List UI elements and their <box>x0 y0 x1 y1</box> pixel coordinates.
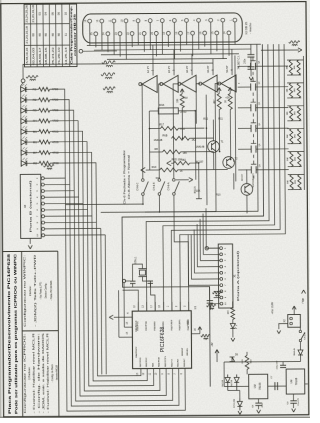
wire to LED common rail <box>23 64 107 79</box>
resistor pair R23b 18K <box>297 129 300 144</box>
svg-text:RB0/INT: RB0/INT <box>182 347 184 356</box>
svg-text:80: 80 <box>51 33 55 37</box>
svg-text:80: 80 <box>31 33 35 37</box>
svg-text:CH-6-C: CH-6-C <box>136 182 139 190</box>
svg-text:Device Config:: Device Config: <box>45 283 48 299</box>
transistor T2 BC337 <box>223 157 235 169</box>
svg-text:CH-LIG: CH-LIG <box>304 332 306 340</box>
Porta B pin 5 <box>41 202 44 205</box>
svg-text:CH-6-A: CH-6-A <box>167 182 170 190</box>
Porta B pin 3 <box>41 189 44 192</box>
svg-text:78L05: 78L05 <box>258 382 262 390</box>
svg-text:80: 80 <box>44 33 48 37</box>
pullup resistor vertical 4K7 <box>217 88 221 91</box>
svg-text:10K: 10K <box>177 98 179 103</box>
svg-text:Porta B (opcional): Porta B (opcional) <box>29 180 32 232</box>
top pin 1 wire <box>123 290 139 311</box>
svg-text:1A 1Y: 1A 1Y <box>146 66 150 73</box>
horizontal bus under DB-25 <box>87 44 261 45</box>
capacitor C8 <box>255 402 261 404</box>
svg-text:- Config. de Hardware:: - Config. de Hardware: <box>37 332 41 413</box>
ground stub left of X2 <box>279 324 288 330</box>
regulator U2 LM78L05 <box>249 374 268 399</box>
svg-text:R10: R10 <box>216 194 221 197</box>
LED D7 <box>21 150 26 156</box>
svg-text:220u: 220u <box>262 403 264 407</box>
svg-text:R11: R11 <box>218 118 223 121</box>
svg-text:RB7/PGD: RB7/PGD <box>140 357 142 367</box>
transistor Q2 BS170 <box>238 86 251 88</box>
ground arrow below Porta B <box>29 238 31 243</box>
power input connector X2 <box>288 314 301 327</box>
svg-text:R12: R12 <box>203 118 208 121</box>
bus wire net D7 <box>50 152 147 381</box>
svg-text:10K: 10K <box>196 190 201 193</box>
resistor pair R25b 18K <box>298 174 301 189</box>
buffer gate U1a 74LS07 <box>142 75 157 92</box>
resistor pair R23a 1K8 <box>290 129 293 144</box>
title text <box>7 253 19 414</box>
svg-text:+Vcc 13,8V: +Vcc 13,8V <box>271 302 274 315</box>
svg-text:BC337: BC337 <box>196 161 204 164</box>
Porta B pin 9 <box>42 227 45 230</box>
svg-text:RB1/RX: RB1/RX <box>178 358 180 366</box>
capacitor C9 <box>290 400 296 402</box>
Porta A pin 5 <box>220 271 223 274</box>
svg-text:+5V: +5V <box>211 342 214 347</box>
svg-text:3V3-0,5W: 3V3-0,5W <box>234 399 236 408</box>
PIC top pin 3 <box>188 302 190 311</box>
svg-text:Ch-6 Fechada = Programador: Ch-6 Fechada = Programador <box>122 150 126 204</box>
buffer gate U1b 74LS07 <box>163 75 178 92</box>
transistor T3 <box>241 184 253 196</box>
connector X2 DB-25 macho <box>83 13 243 43</box>
Porta A pin10 +5V <box>211 304 220 310</box>
svg-text:- JDM(2) Tells TxD+-PWR: - JDM(2) Tells TxD+-PWR <box>34 254 38 327</box>
wires from DB-25 pins down to bus <box>89 23 91 45</box>
svg-text:RB6/PGC: RB6/PGC <box>137 321 139 331</box>
transistor T1 connections <box>213 152 215 169</box>
diode D9 <box>230 357 235 362</box>
DB-25 top pin row (13 pins) <box>88 19 92 23</box>
svg-text:RB4/PGM: RB4/PGM <box>159 357 161 367</box>
PSU top rail <box>224 360 300 363</box>
connector X1 Porta A (opcional) <box>218 244 233 308</box>
bus wire net D4 <box>50 120 166 396</box>
svg-text:1N4148: 1N4148 <box>154 139 163 142</box>
svg-text:100n: 100n <box>244 58 246 64</box>
svg-text:78L08: 78L08 <box>294 377 298 385</box>
switch CH-6-C net to bus <box>145 211 216 213</box>
+Vpp arrow at X2 <box>292 306 296 309</box>
handwritten +5V note <box>26 76 38 81</box>
svg-text:682: 682 <box>182 159 187 162</box>
svg-text:18K: 18K <box>287 157 289 161</box>
PIC top pin 1 <box>171 302 173 311</box>
Porta B pin 4 <box>41 196 44 199</box>
svg-text:11: 11 <box>64 33 68 36</box>
svg-text:3A 3Y: 3A 3Y <box>185 65 189 72</box>
junction dots <box>195 110 197 112</box>
resistor R16 2700 (box style) <box>158 108 178 114</box>
title block <box>22 251 23 416</box>
svg-text:100n-63V: 100n-63V <box>277 360 279 369</box>
switch CH-6-A <box>172 179 175 182</box>
transistor Q5 BS170 <box>238 148 251 150</box>
svg-text:- Na Porta (LPT): - Na Porta (LPT) <box>39 282 42 300</box>
svg-text:- Config. de Hard-: - Config. de Hard- <box>51 364 54 383</box>
resistor pair R20b 18K <box>297 60 300 75</box>
svg-text:+5V: +5V <box>183 97 188 100</box>
bus wire net 1 <box>145 44 270 311</box>
rail to left bus <box>100 44 258 212</box>
Porta A pin 8 <box>220 290 223 293</box>
svg-text:- Porta PIC16F628: - Porta PIC16F628 <box>50 280 53 301</box>
svg-text:06: 06 <box>57 12 61 16</box>
svg-text:5A 5Y: 5A 5Y <box>225 65 229 72</box>
Porta A pin 6 <box>220 278 223 281</box>
wire wrap net <box>121 44 265 387</box>
PIC top pin 13 <box>146 302 148 311</box>
svg-text:- Fusivel: Habilitar nivel MCL: - Fusivel: Habilitar nivel MCLR <box>33 332 37 413</box>
crystal wires <box>133 264 143 281</box>
resistor pair R20a 1K8 <box>289 60 292 75</box>
transistor Q3 BS170 <box>238 107 251 109</box>
base bus for transistor column <box>234 55 237 181</box>
extra vertical wires middle <box>194 111 196 180</box>
svg-text:18K: 18K <box>287 88 289 92</box>
resistor pair R21b 18K <box>297 83 300 98</box>
bus wire net D8 <box>50 163 141 377</box>
resistor RE3 10K <box>174 161 190 165</box>
svg-text:18K: 18K <box>286 65 288 69</box>
svg-text:21,20,19: 21,20,19 <box>57 47 61 65</box>
connector X3 Porta B (opcional) <box>20 174 41 238</box>
table title text <box>69 6 77 64</box>
svg-text:U1: U1 <box>193 305 197 309</box>
terminal circle <box>122 279 125 282</box>
capacitor C5 100nF <box>250 44 252 54</box>
switch CH-LIG <box>299 330 301 332</box>
PIC top pin 18 <box>163 302 165 311</box>
svg-text:RB1/RX: RB1/RX <box>187 347 189 355</box>
capacitor C2 <box>148 280 153 282</box>
svg-text:10: 10 <box>64 12 68 16</box>
resistor pair R24a 1K8 <box>290 152 293 167</box>
diodes 1N4148 pair <box>225 374 230 390</box>
Porta B pin 2 <box>41 183 44 186</box>
PIC top pin 17 <box>154 302 156 311</box>
svg-text:R13: R13 <box>152 166 157 169</box>
svg-text:RB2/TX: RB2/TX <box>171 359 173 367</box>
buffer gate U1d 74LS07 <box>202 75 217 92</box>
Porta A pin 2 <box>220 253 223 256</box>
resistor R13 1K01A <box>160 168 178 172</box>
Porta B pin 10 <box>42 234 45 237</box>
svg-text:RA5/MCLR: RA5/MCLR <box>135 320 138 332</box>
LED D3 <box>21 108 26 114</box>
LED D8 <box>21 160 26 166</box>
+5V stub top right <box>261 49 299 51</box>
resistor pair R22b 18K <box>297 106 300 121</box>
Porta A pins 8,9 stubs <box>214 290 220 292</box>
+Vpp label right edge <box>302 290 306 294</box>
svg-text:04: 04 <box>44 12 48 16</box>
resistor pair R21a 1K8 <box>289 83 292 98</box>
svg-text:CH-6-B: CH-6-B <box>153 182 156 190</box>
svg-text:10u-16V: 10u-16V <box>298 398 300 406</box>
bus wire net 2 <box>162 44 276 311</box>
arrow node left <box>141 168 146 173</box>
svg-text:05,04,03: 05,04,03 <box>31 47 35 65</box>
svg-text:1K: 1K <box>225 100 227 103</box>
pullup resistor vertical 1K <box>228 87 232 90</box>
regulator U3 LM78L05 <box>286 369 305 394</box>
zener 3V3 <box>237 398 242 410</box>
transistor Q1 BS170 <box>238 65 251 67</box>
resistor R17 <box>160 126 178 130</box>
node arrow <box>189 178 193 182</box>
LED D1 <box>21 87 26 93</box>
svg-text:RA2/VREF: RA2/VREF <box>170 319 173 330</box>
svg-text:R6B: R6B <box>162 134 167 137</box>
handwritten 74HC07 note <box>102 61 115 67</box>
svg-text:RB3/CCP1: RB3/CCP1 <box>165 355 167 366</box>
bus wire net 4 <box>178 44 285 311</box>
svg-text:conector DB-25: conector DB-25 <box>73 13 77 56</box>
LED D6 <box>21 139 26 145</box>
svg-text:80: 80 <box>57 33 61 37</box>
Porta A pin 1 <box>220 247 223 250</box>
ground symbols PSU <box>238 411 242 414</box>
buffer gate U1c 74LS07 <box>181 75 196 92</box>
svg-text:Configuracao no WINPIC:: Configuracao no WINPIC: <box>23 254 27 327</box>
svg-text:- Fusivel: Habilitar nivel MCL: - Fusivel: Habilitar nivel MCLR <box>46 332 50 413</box>
resistor R6B 1K2 <box>171 136 189 140</box>
LED D5 <box>21 129 26 135</box>
LED D4 <box>21 118 26 124</box>
svg-text:Interface:: Interface: <box>29 286 32 296</box>
+5V feed arrow <box>215 350 219 354</box>
PIC top pin 12 <box>137 302 139 311</box>
Porta B pin 7 <box>42 215 45 218</box>
svg-text:Ch-6 Aberta = Normal: Ch-6 Aberta = Normal <box>127 154 131 199</box>
svg-text:- Inverter MCLR: - Inverter MCLR <box>56 365 59 382</box>
table: Cabo Programador/Computador pin map <box>24 4 77 67</box>
resistor pair R25a 1K8 <box>290 175 293 190</box>
pullup resistor vertical 10K <box>180 89 184 92</box>
transistor Q6 BS170 <box>238 169 251 171</box>
bus wire net D2 <box>50 99 179 406</box>
svg-text:R16: R16 <box>159 103 164 107</box>
bus wire net D1 <box>50 88 186 411</box>
svg-text:- JDM, entr. e saida de DADOS: - JDM, entr. e saida de DADOS <box>42 332 46 413</box>
Porta A pin 9 <box>220 296 223 299</box>
svg-text:80: 80 <box>38 33 42 37</box>
Porta B pin 1 <box>41 177 44 180</box>
svg-text:18K: 18K <box>287 134 289 138</box>
switch CH-6-B <box>158 179 161 182</box>
Porta A pin 10 <box>220 302 223 305</box>
transistor T1 BC337 <box>208 141 220 153</box>
capacitor C6 100nF <box>250 57 252 67</box>
PIC top pin 2 <box>179 302 181 311</box>
resistor R20 820 <box>245 355 249 369</box>
svg-text:18K: 18K <box>287 111 289 115</box>
svg-text:05: 05 <box>50 12 54 16</box>
bus wire net 3 <box>170 44 281 311</box>
transistor Q4 BS170 <box>238 127 251 129</box>
Porta A pin 7 <box>220 284 223 287</box>
svg-text:21,20,19,18: 21,20,19,18 <box>31 5 35 23</box>
svg-text:RB0/INT: RB0/INT <box>184 358 186 367</box>
PIC left pins 4,16,15 <box>114 316 132 318</box>
svg-text:RA3/CMP1: RA3/CMP1 <box>178 319 181 331</box>
svg-text:2700: 2700 <box>180 110 187 114</box>
Porta A pin 3 <box>220 259 223 262</box>
svg-text:15,08,19,16: 15,08,19,16 <box>25 47 29 65</box>
svg-text:Configuracao no ICPROG:: Configuracao no ICPROG: <box>23 332 27 413</box>
svg-text:- macho: - macho <box>248 23 252 34</box>
svg-text:1) Hardware:: 1) Hardware: <box>28 366 31 380</box>
svg-text:1N4148: 1N4148 <box>196 146 205 149</box>
diode D10 1N4148 <box>299 342 301 350</box>
svg-text:03: 03 <box>37 12 41 16</box>
svg-text:1K: 1K <box>180 170 183 173</box>
svg-text:RA1/AN1: RA1/AN1 <box>162 321 165 331</box>
svg-text:18K: 18K <box>287 180 289 184</box>
bus wire net D3 <box>50 109 173 401</box>
Porta A pin wires <box>206 208 220 248</box>
svg-text:+Vpp: +Vpp <box>302 297 305 303</box>
LED D2 <box>21 97 26 103</box>
capacitor C1 <box>130 280 135 282</box>
Porta A pin1 terminal <box>205 247 208 250</box>
wire with terminals at left under connector <box>79 49 83 53</box>
svg-text:74LS07 C.I.: 74LS07 C.I. <box>236 55 240 69</box>
svg-text:21,20,19,18: 21,20,19,18 <box>25 26 29 44</box>
svg-text:18K: 18K <box>183 152 188 155</box>
resistor pair R24b 18K <box>298 152 301 167</box>
Porta B pin 8 <box>42 221 45 224</box>
bus wire net D6 <box>50 141 154 386</box>
ground for caps <box>249 77 253 80</box>
svg-text:4A 4Y: 4A 4Y <box>206 65 210 72</box>
buffer gate U1e 74LS07 <box>221 75 236 92</box>
Porta B pin 6 <box>41 208 44 211</box>
svg-text:18,08,15: 18,08,15 <box>44 47 48 65</box>
svg-text:RB7/PGD: RB7/PGD <box>146 321 148 331</box>
LED power + resistor 1K8 <box>232 301 234 307</box>
resistor R8 18K <box>163 150 181 154</box>
switch CH-6-C <box>141 179 144 182</box>
svg-text:1N4148: 1N4148 <box>231 379 233 387</box>
gate output wires <box>141 84 143 179</box>
svg-text:18,09,17: 18,09,17 <box>38 47 42 65</box>
svg-text:RA0/AN0: RA0/AN0 <box>153 321 156 331</box>
svg-text:25,24,23: 25,24,23 <box>51 47 55 65</box>
svg-text:BC337: BC337 <box>242 173 244 180</box>
svg-text:XTAL1: XTAL1 <box>134 256 137 264</box>
capacitor C11 <box>282 362 284 365</box>
svg-text:23,24,25,26: 23,24,25,26 <box>24 5 28 23</box>
DB-25 bottom pin row (12 pins) <box>94 32 98 36</box>
svg-text:+5V: +5V <box>225 96 230 99</box>
bus wire net D5 <box>50 131 160 392</box>
svg-text:RA6/OSC2: RA6/OSC2 <box>135 346 138 358</box>
svg-text:RB6/PGC: RB6/PGC <box>146 357 148 367</box>
capacitor C7 on rail <box>274 382 276 390</box>
pull-up resistor pairs right edge <box>302 56 305 190</box>
svg-text:R17: R17 <box>159 123 164 126</box>
+5V note at Porta B <box>44 164 54 169</box>
svg-text:13,25,14: 13,25,14 <box>64 47 68 65</box>
svg-text:1N4148: 1N4148 <box>294 348 296 356</box>
IC U1 PIC16F628 <box>132 311 191 369</box>
resistor pair R22a 1K8 <box>289 106 292 121</box>
svg-text:BS250/BS170: BS250/BS170 <box>253 173 255 188</box>
svg-text:Porta A (opcional): Porta A (opcional) <box>237 250 240 300</box>
svg-text:2A 2Y: 2A 2Y <box>167 66 171 73</box>
svg-text:VDD: VDD <box>188 320 190 325</box>
Porta A pin 4 <box>220 265 223 268</box>
capacitor C4 100nF <box>207 300 213 302</box>
